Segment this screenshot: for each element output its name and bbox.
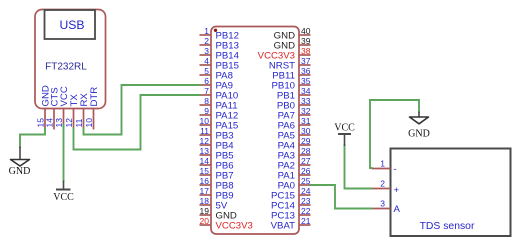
U2 pin 16 PB8 (200, 176, 234, 192)
svg-text:32: 32 (301, 106, 311, 116)
power symbol VCC left (53, 181, 74, 203)
svg-text:USB: USB (59, 18, 84, 32)
U2 pin 12 PB4 (200, 136, 235, 152)
svg-text:1: 1 (380, 159, 385, 169)
svg-text:+: + (394, 185, 400, 196)
svg-text:6: 6 (204, 76, 209, 86)
U2 pin 6 PA9 (200, 76, 233, 92)
svg-text:8: 8 (204, 96, 209, 106)
U2 pin 27 PA2 (278, 156, 311, 172)
U2 pin 37 NRST (269, 56, 311, 72)
ground symbol right (408, 112, 430, 140)
svg-text:24: 24 (301, 186, 311, 196)
U1 pin 15 GND (36, 85, 52, 129)
svg-text:30: 30 (301, 126, 311, 136)
U1 pin 14 CTS (45, 87, 61, 129)
svg-text:10: 10 (84, 118, 94, 128)
svg-text:TDS sensor: TDS sensor (420, 221, 475, 232)
svg-text:15: 15 (200, 166, 210, 176)
svg-text:37: 37 (301, 56, 311, 66)
svg-text:16: 16 (200, 176, 210, 186)
wire FT232 TX to MCU PA10 (74, 95, 200, 150)
svg-text:34: 34 (301, 86, 311, 96)
svg-text:7: 7 (204, 86, 209, 96)
U2 pin 9 PA12 (200, 106, 239, 122)
svg-text:14: 14 (45, 118, 55, 128)
U2 pin 35 PB10 (272, 76, 311, 92)
U2 pin 23 PC14 (271, 196, 311, 212)
svg-text:GND: GND (9, 166, 31, 177)
U2 pin 24 PC15 (271, 186, 311, 202)
svg-text:21: 21 (301, 216, 311, 226)
U2 pin 26 PA1 (278, 166, 311, 182)
svg-text:4: 4 (204, 56, 209, 66)
svg-text:A: A (394, 204, 401, 215)
svg-text:VCC: VCC (334, 122, 355, 133)
pin 1 marker dot (214, 29, 217, 32)
U2 pin 5 PA8 (200, 66, 233, 82)
svg-text:12: 12 (200, 136, 210, 146)
svg-text:19: 19 (200, 206, 210, 216)
svg-text:1: 1 (204, 26, 209, 36)
svg-text:VCC: VCC (53, 192, 74, 203)
svg-text:36: 36 (301, 66, 311, 76)
U2 pin 17 PB9 (200, 186, 234, 202)
U2 pin 33 PB0 (277, 96, 311, 112)
U2 pin 22 PC13 (271, 206, 311, 222)
svg-text:22: 22 (301, 206, 311, 216)
IC U2 MCU body (211, 27, 299, 235)
svg-text:13: 13 (54, 118, 64, 128)
svg-text:5: 5 (204, 66, 209, 76)
svg-text:26: 26 (301, 166, 311, 176)
svg-text:25: 25 (301, 176, 311, 186)
wire MCU PA0 to TDS pin3 A (311, 185, 372, 209)
svg-text:10: 10 (200, 116, 210, 126)
svg-text:13: 13 (200, 146, 210, 156)
svg-text:GND: GND (408, 129, 430, 140)
module U3 TDS sensor body (391, 149, 511, 237)
U1 pin 10 DTR (84, 87, 100, 130)
svg-text:20: 20 (200, 216, 210, 226)
U2 pin 31 PA6 (278, 116, 311, 132)
U1 pin 11 RX (74, 93, 90, 130)
U2 pin 39 GND (274, 36, 311, 52)
U2 pin 29 PA4 (278, 136, 311, 152)
svg-text:3: 3 (380, 199, 385, 209)
svg-text:9: 9 (204, 106, 209, 116)
svg-text:11: 11 (74, 118, 84, 127)
svg-text:11: 11 (200, 126, 209, 136)
U2 pin 10 PA15 (200, 116, 239, 132)
svg-text:28: 28 (301, 146, 311, 156)
U2 pin 13 PB5 (200, 146, 234, 162)
U2 pin 34 PB1 (277, 86, 311, 102)
svg-text:-: - (394, 164, 397, 175)
svg-text:38: 38 (301, 46, 311, 56)
U2 pin 2 PB13 (200, 36, 239, 52)
svg-text:2: 2 (204, 36, 209, 46)
svg-text:DTR: DTR (89, 87, 100, 107)
U2 pin 7 PA10 (200, 86, 239, 102)
svg-text:18: 18 (200, 196, 210, 206)
U2 pin 32 PA7 (278, 106, 311, 122)
svg-text:FT232RL: FT232RL (45, 62, 87, 73)
wire FT232 GND to GND symbol (20, 129, 45, 148)
svg-text:VCC3V3: VCC3V3 (216, 221, 253, 232)
U2 pin 30 PA5 (278, 126, 311, 142)
U2 pin 8 PA11 (200, 96, 238, 112)
svg-text:31: 31 (301, 116, 311, 126)
svg-text:40: 40 (301, 26, 311, 36)
U2 pin 36 PB11 (272, 66, 310, 82)
U2 pin 20 VCC3V3 (200, 216, 253, 232)
svg-text:27: 27 (301, 156, 311, 166)
power symbol VCC right (334, 122, 355, 146)
wire FT232 RX to MCU PA9 (84, 85, 200, 135)
ground symbol left (9, 147, 31, 178)
U2 pin 40 GND (274, 26, 311, 42)
U2 pin 25 PA0 (278, 176, 311, 192)
U2 pin 19 GND (200, 206, 237, 222)
U2 pin 18 5V (200, 196, 228, 212)
wire FT232 VCC to VCC symbol (63, 125, 65, 181)
svg-text:3: 3 (204, 46, 209, 56)
U2 pin 14 PB6 (200, 156, 234, 172)
svg-text:39: 39 (301, 36, 311, 46)
svg-text:23: 23 (301, 196, 311, 206)
U2 pin 28 PA3 (278, 146, 311, 162)
wire VCC symbol to TDS pin2 + (345, 145, 372, 189)
U2 pin 38 VCC3V3 (258, 46, 311, 62)
USB connector box (45, 10, 96, 39)
U1 pin 12 TX (64, 94, 80, 130)
svg-text:33: 33 (301, 96, 311, 106)
U2 pin 1 PB12 (200, 26, 239, 42)
svg-text:VBAT: VBAT (271, 221, 295, 232)
U3 pin 1 - (372, 159, 397, 176)
U2 pin 21 VBAT (271, 216, 311, 232)
U1 pin 13 VCC (54, 86, 70, 129)
svg-text:2: 2 (380, 179, 385, 189)
svg-text:14: 14 (200, 156, 210, 166)
U3 pin 2 + (372, 179, 400, 196)
svg-text:12: 12 (64, 118, 74, 128)
svg-text:17: 17 (200, 186, 210, 196)
U2 pin 4 PB15 (200, 56, 239, 72)
U3 pin 3 A (372, 199, 401, 216)
wire TDS pin1 - to GND symbol (370, 100, 419, 168)
U2 pin 15 PB7 (200, 166, 234, 182)
U2 pin 11 PB3 (200, 126, 234, 142)
svg-text:29: 29 (301, 136, 311, 146)
svg-text:35: 35 (301, 76, 311, 86)
U2 pin 3 PB14 (200, 46, 240, 62)
module U1 FT232RL body (35, 10, 106, 109)
